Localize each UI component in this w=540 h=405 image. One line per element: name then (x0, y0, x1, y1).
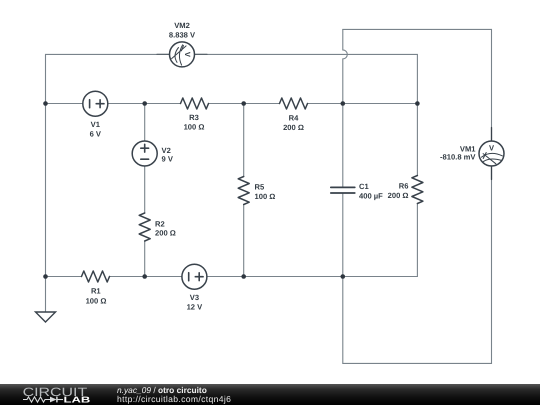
node (C1 branch, bottom row) (341, 274, 346, 279)
node (C1 branch, main row) (341, 101, 346, 106)
svg-text:R4: R4 (289, 114, 299, 123)
svg-text:-810.8 mV: -810.8 mV (440, 152, 476, 161)
label R5 value 100 Ohm (255, 192, 276, 201)
svg-text:LAB: LAB (64, 395, 91, 405)
svg-text:8.838 V: 8.838 V (169, 31, 196, 40)
label R6 name (399, 182, 409, 191)
wire main row y=103.5 (46, 103, 418, 105)
svg-text:V: V (489, 144, 495, 153)
svg-text:R3: R3 (189, 113, 199, 122)
label R4 value 200 Ohm (283, 123, 304, 132)
capacitor C1 (331, 187, 355, 193)
wire right vertical upper (to VM1) (491, 29, 493, 141)
source V2 (132, 141, 157, 166)
node A (left, main row) (43, 101, 48, 106)
wire bottom row y=276.5 (46, 276, 418, 278)
svg-text:9 V: 9 V (162, 155, 174, 164)
wire center vertical x=343.5 with hop over VM2 row (343, 29, 348, 187)
wire ground stem (45, 277, 47, 313)
wire C1 bottom lead down to bottom return (342, 193, 344, 363)
label R6 value 200 Ohm (388, 191, 409, 200)
source V1 (83, 91, 108, 116)
svg-text:VM2: VM2 (174, 21, 190, 30)
label V3 value 12 V (187, 303, 204, 312)
wire VM2 row right segment with corner down to node B (195, 54, 418, 103)
svg-text:http://circuitlab.com/ctqn4j6: http://circuitlab.com/ctqn4j6 (117, 394, 231, 404)
label VM1 value -810.8 mV (440, 152, 476, 161)
label C1 name (359, 182, 369, 191)
resistor R1 (82, 271, 110, 282)
svg-text:R2: R2 (155, 220, 165, 229)
resistor R3 (181, 98, 209, 109)
footer url (117, 394, 231, 404)
svg-text:100 Ω: 100 Ω (184, 123, 205, 132)
wire R5 branch lower (243, 205, 245, 277)
label R3 name (189, 113, 199, 122)
svg-text:R6: R6 (399, 182, 409, 191)
label R1 name (91, 287, 101, 296)
resistor R2 (139, 213, 150, 241)
voltmeter VM1 glyph V (489, 144, 495, 153)
voltmeter VM2 glyph V (183, 52, 192, 58)
svg-text:400 µF: 400 µF (359, 192, 383, 201)
wire R6 branch upper (416, 104, 418, 176)
label R2 name (155, 220, 165, 229)
svg-text:C1: C1 (359, 182, 369, 191)
wire R5 branch upper (243, 104, 245, 177)
wire right vertical lower (from VM1) with bottom return (343, 166, 492, 363)
wire R2 to bottom row (144, 241, 146, 277)
svg-text:100 Ω: 100 Ω (86, 297, 107, 306)
wire V2 to R2 (144, 166, 146, 213)
footer bar (0, 384, 540, 405)
node (V2 branch, main row) (142, 101, 147, 106)
footer title: n.yac_09 / otro circuito (117, 385, 207, 395)
node B (R6 branch, main row) (415, 101, 420, 106)
svg-text:200 Ω: 200 Ω (283, 123, 304, 132)
label V3 name (190, 293, 199, 302)
wire R6 branch lower (416, 204, 418, 277)
svg-text:200 Ω: 200 Ω (155, 229, 176, 238)
svg-text:V3: V3 (190, 293, 199, 302)
label R5 name (255, 183, 265, 192)
voltmeter VM2 (157, 42, 207, 67)
label R3 value 100 Ohm (184, 123, 205, 132)
logo resistor zigzag and diode (23, 397, 63, 403)
label V2 name (162, 146, 171, 155)
label V1 value 6 V (90, 130, 102, 139)
svg-text:200 Ω: 200 Ω (388, 191, 409, 200)
wire left vertical (45, 54, 47, 276)
wire top loop (343, 28, 492, 30)
svg-text:R5: R5 (255, 183, 265, 192)
label V2 value 9 V (162, 155, 174, 164)
svg-text:12 V: 12 V (187, 303, 204, 312)
label VM1 name (460, 144, 476, 153)
ground (36, 312, 56, 322)
resistor R4 (280, 98, 308, 109)
label V1 name (91, 120, 101, 129)
svg-text:V1: V1 (91, 120, 101, 129)
label VM2 name (174, 21, 190, 30)
logo LAB text (64, 395, 91, 405)
node (R2 branch, bottom row) (142, 274, 147, 279)
node (R5 branch, main row) (241, 101, 246, 106)
node (ground, bottom row) (43, 274, 48, 279)
source V3 (182, 264, 207, 289)
svg-text:6 V: 6 V (90, 130, 102, 139)
resistor R5 (238, 177, 249, 205)
label C1 value 400 uF (359, 192, 383, 201)
wire VM2 row left segment (46, 53, 170, 55)
svg-text:100 Ω: 100 Ω (255, 192, 276, 201)
label VM2 value 8.838 V (169, 31, 196, 40)
svg-text:R1: R1 (91, 287, 101, 296)
wire V2 branch upper (144, 104, 146, 142)
logo CIRCUIT text (23, 385, 88, 399)
voltmeter VM1 (479, 128, 504, 180)
svg-text:V: V (183, 52, 192, 58)
label R4 name (289, 114, 299, 123)
label R2 value 200 Ohm (155, 229, 176, 238)
node (R5 branch, bottom row) (241, 274, 246, 279)
label R1 value 100 Ohm (86, 297, 107, 306)
resistor R6 (412, 176, 423, 204)
